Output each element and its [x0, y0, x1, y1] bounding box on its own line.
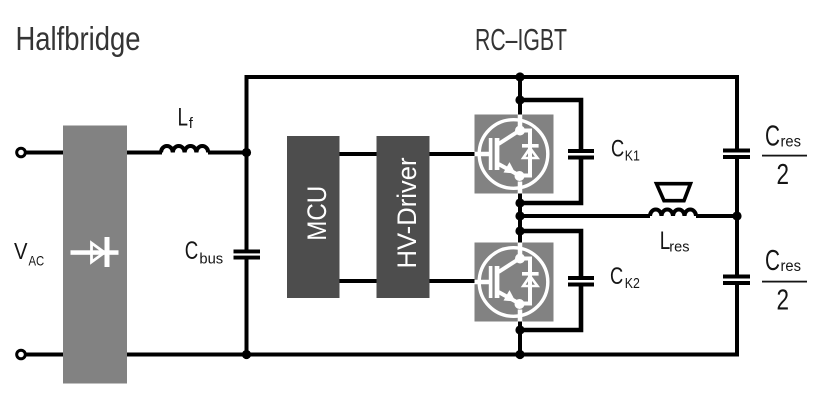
svg-text:C: C [611, 135, 624, 162]
junction CK1 bottom [515, 198, 524, 207]
svg-text:2: 2 [777, 285, 790, 317]
wire gate bottom segment [339, 279, 475, 283]
svg-text:Halfbridge: Halfbridge [16, 20, 141, 57]
svg-text:C: C [610, 263, 623, 290]
svg-text:HV-Driver: HV-Driver [392, 158, 422, 269]
svg-text:L: L [178, 103, 189, 131]
junction left rail / bottom rail [242, 350, 251, 359]
inductor Lf [161, 146, 208, 153]
wire AC top [26, 151, 162, 155]
junction mid rail / top rail [515, 72, 524, 81]
wire top rail [245, 75, 740, 79]
wire Lf to junction [208, 151, 246, 155]
svg-text:bus: bus [199, 251, 223, 268]
svg-text:res: res [781, 134, 802, 151]
wire CK2 return [520, 285, 581, 330]
junction mid rail / bottom rail [515, 350, 524, 359]
wire Lres left segment [520, 214, 650, 218]
wire CK1 return [520, 159, 581, 204]
svg-text:K2: K2 [625, 276, 640, 292]
junction CK2 top [515, 226, 524, 235]
capacitor Cbus [234, 250, 261, 260]
pot symbol above Lres [657, 184, 691, 201]
wire right rail seg1 [735, 75, 739, 149]
wire right rail seg3 [735, 285, 739, 357]
svg-text:res: res [669, 239, 689, 256]
svg-text:RC–IGBT: RC–IGBT [475, 22, 567, 57]
wire left rail lower [245, 259, 249, 356]
rectifier block [63, 126, 127, 384]
transistor T2 bottom IGBT [475, 243, 554, 322]
capacitor CK1 [568, 149, 594, 160]
HV-Driver block [377, 136, 430, 298]
wire right rail seg2 [735, 159, 739, 275]
inductor Lres [650, 210, 696, 217]
wire bottom rail [26, 353, 739, 357]
capacitor CK2 [568, 276, 594, 287]
svg-text:C: C [185, 237, 199, 265]
wire gate top segment [339, 152, 475, 156]
svg-text:C: C [765, 121, 780, 153]
svg-text:2: 2 [777, 159, 790, 191]
capacitor Cres top [723, 149, 750, 160]
junction CK1 top [515, 95, 524, 104]
label Cres/2 bottom [762, 245, 807, 317]
wire CK1 feed [520, 100, 581, 150]
transistor T1 top IGBT [475, 115, 554, 194]
svg-text:K1: K1 [625, 148, 640, 164]
capacitor Cres bottom [723, 275, 750, 286]
wire left rail upper [245, 75, 249, 250]
junction Lf / left rail [242, 148, 251, 157]
MCU block [287, 136, 340, 298]
wire CK2 feed [520, 231, 581, 277]
svg-text:MCU: MCU [302, 186, 332, 241]
wire Lres right segment [696, 214, 737, 218]
svg-text:AC: AC [29, 253, 45, 269]
junction CK2 bottom [515, 325, 524, 334]
label Cres/2 top [762, 121, 807, 192]
junction Lres / right rail [732, 211, 741, 220]
svg-text:res: res [781, 258, 802, 275]
junction midpoint node [515, 211, 524, 220]
svg-text:C: C [765, 245, 780, 277]
svg-text:V: V [14, 238, 28, 264]
wire mid rail [518, 75, 522, 357]
terminal bottom-left [17, 350, 26, 359]
terminal top-left [17, 148, 26, 157]
rectifier diode [71, 237, 119, 267]
